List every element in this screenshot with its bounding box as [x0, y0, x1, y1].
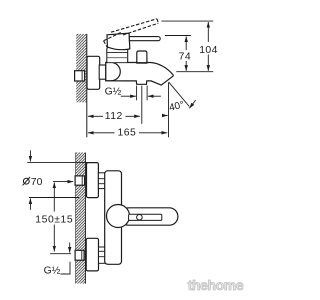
dimension: G1/2 (bottom view) [61, 262, 71, 274]
set screw dot [137, 215, 143, 221]
shared bottom extension line (spout tip level) [176, 71, 213, 73]
wall flange escutcheon [87, 56, 100, 89]
svg-text:G½: G½ [105, 87, 122, 98]
wall (hatched) [76, 34, 87, 102]
lever slot detail [129, 214, 162, 220]
dimension: 165 [88, 83, 169, 137]
svg-text:104: 104 [199, 45, 218, 56]
lever handle (front view) [120, 208, 178, 225]
svg-text:165: 165 [118, 127, 137, 138]
svg-text:G½: G½ [44, 266, 61, 277]
dimension: diameter 70 [27, 150, 88, 210]
svg-text:74: 74 [179, 51, 191, 62]
svg-text:thehome: thehome [188, 277, 244, 293]
lever handle raised position (dashed phantom) [104, 19, 159, 49]
union nut bottom [99, 247, 106, 263]
faucet body with spout [106, 63, 173, 86]
label diameter-70 [23, 177, 43, 188]
flange top [87, 163, 99, 198]
faucet body column [105, 171, 122, 264]
svg-text:150±15: 150±15 [35, 214, 73, 225]
dimension: 40 degrees [162, 82, 196, 116]
diverter knob [136, 51, 147, 63]
svg-text:70: 70 [31, 177, 43, 188]
neck collar [107, 48, 128, 62]
outlet centerline [141, 86, 143, 124]
handle base hub [107, 33, 130, 50]
eccentric connector top [75, 176, 85, 185]
G1/2 leader arrow [121, 95, 136, 97]
dimension: 74 [165, 36, 191, 71]
cartridge circle [107, 205, 130, 228]
eccentric connector bottom [75, 250, 84, 260]
flange bottom [86, 238, 98, 271]
wall (hatched) [75, 153, 85, 284]
wall edge lines [74, 153, 76, 284]
body cartridge dome (D-cap) [106, 63, 120, 81]
dimension: G1/2 (top view outlet) [121, 86, 161, 124]
union pipe to body [99, 65, 107, 79]
dimension: 104 [161, 21, 213, 72]
dimension: 150 plus/minus 15 [50, 183, 71, 254]
dimension: 112 [88, 115, 140, 117]
union nut top [98, 173, 105, 189]
eccentric connector (top view) [75, 71, 85, 81]
wall face line / extension line for 112 and 165 [86, 34, 88, 137]
axis leader with arrow [53, 181, 73, 183]
svg-text:40°: 40° [168, 100, 185, 114]
extension line at spout tip [168, 83, 170, 137]
lever handle (horizontal, solid) [129, 37, 160, 41]
svg-text:112: 112 [105, 111, 123, 122]
